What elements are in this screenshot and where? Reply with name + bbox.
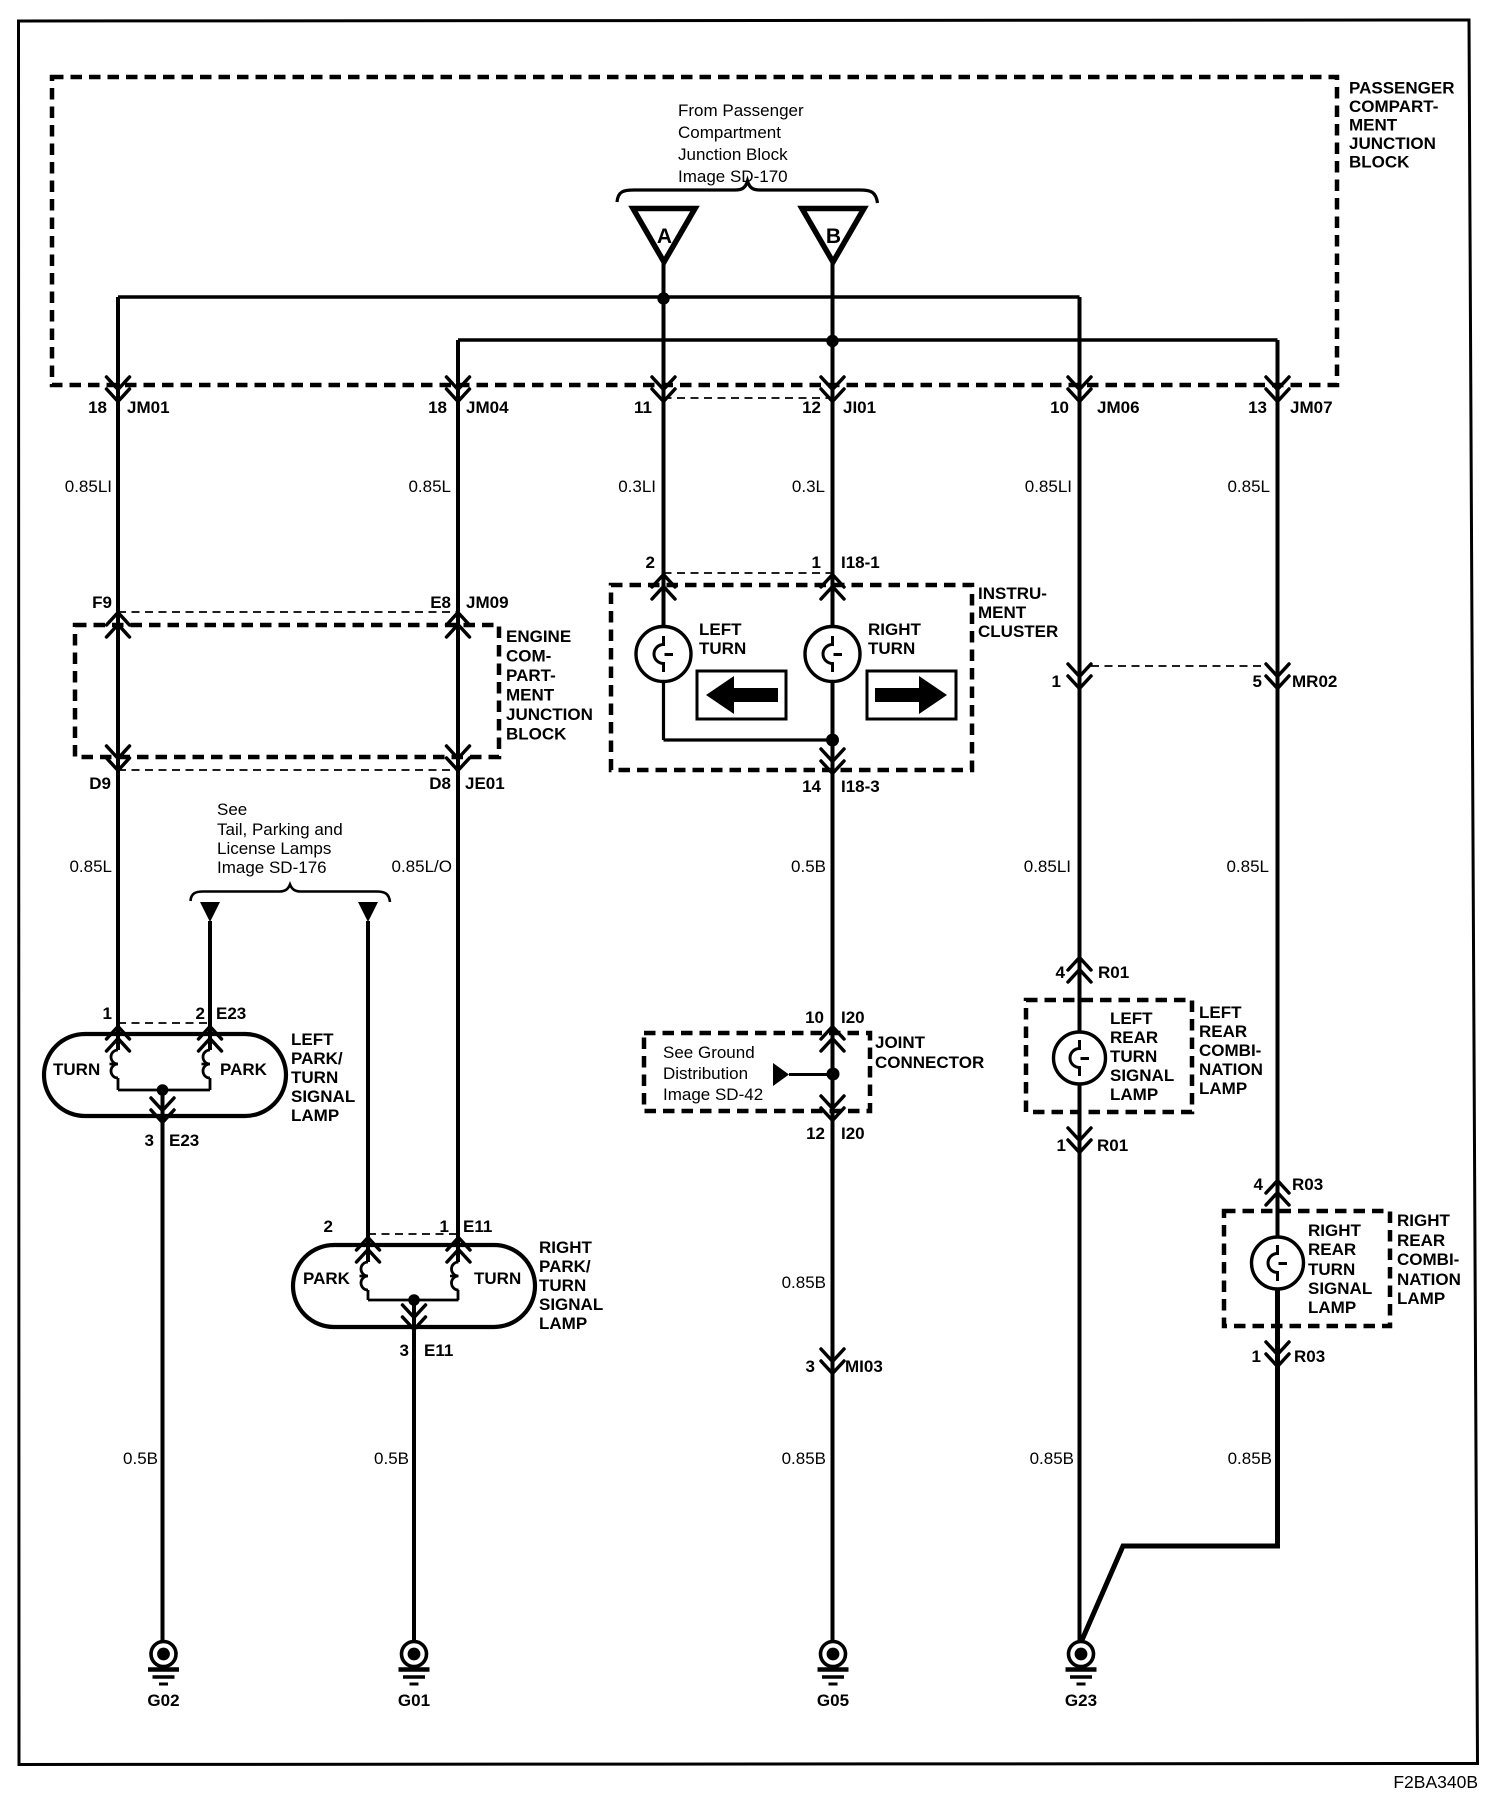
svg-text:MENT: MENT xyxy=(506,686,555,705)
svg-text:Image SD-170: Image SD-170 xyxy=(678,167,788,186)
svg-text:0.85B: 0.85B xyxy=(782,1449,826,1468)
svg-text:13: 13 xyxy=(1248,398,1267,417)
svg-text:11: 11 xyxy=(634,398,652,417)
svg-text:Tail, Parking and: Tail, Parking and xyxy=(217,820,343,839)
svg-text:E11: E11 xyxy=(463,1217,492,1236)
svg-text:12: 12 xyxy=(802,398,821,417)
see-ground pointer arrow xyxy=(773,1063,827,1086)
labels D9 / D8 JE01 xyxy=(89,774,504,793)
svg-text:JM07: JM07 xyxy=(1290,398,1333,417)
svg-text:ENGINE: ENGINE xyxy=(506,627,571,646)
wire: stub from tail lamps note to left lamp PARK pin xyxy=(208,921,212,1050)
svg-text:1: 1 xyxy=(812,553,821,572)
labels F9 / E8 JM09 xyxy=(92,593,508,612)
connector R03 pin 4 xyxy=(1266,1181,1289,1194)
filament: left lamp PARK xyxy=(202,1050,211,1078)
instrument cluster (dashed box) xyxy=(611,585,972,770)
svg-text:INSTRU-: INSTRU- xyxy=(978,584,1047,603)
svg-text:REAR: REAR xyxy=(1397,1231,1445,1250)
svg-text:0.3LI: 0.3LI xyxy=(618,477,656,496)
svg-text:RIGHT: RIGHT xyxy=(1308,1221,1362,1240)
connector I18-1 pin 2 xyxy=(652,575,675,588)
svg-text:R01: R01 xyxy=(1098,963,1129,982)
labels cluster connector I18-3 xyxy=(802,777,880,796)
connector I18-3 pin 14 xyxy=(821,749,844,762)
svg-text:0.85LI: 0.85LI xyxy=(1025,477,1072,496)
filament: right lamp TURN xyxy=(450,1262,459,1290)
arrowhead on right stub wire xyxy=(358,902,378,922)
labels left lamp connector E23 pin 3 xyxy=(145,1131,200,1150)
svg-text:License Lamps: License Lamps xyxy=(217,839,331,858)
svg-text:2: 2 xyxy=(646,553,655,572)
dashed link connector E23 pins 1-2 xyxy=(118,1022,210,1024)
svg-text:3: 3 xyxy=(145,1131,154,1150)
wire gauge labels row 3 xyxy=(123,1449,1272,1468)
connector JM01 pin 18 xyxy=(107,377,130,390)
labels left lamp TURN / PARK xyxy=(53,1060,268,1079)
svg-text:0.5B: 0.5B xyxy=(123,1449,158,1468)
wire: right lamp internal junction to pin 3 and G01 xyxy=(368,1299,459,1302)
note: see ground distribution xyxy=(663,1043,763,1104)
svg-text:18: 18 xyxy=(88,398,107,417)
svg-text:Junction Block: Junction Block xyxy=(678,145,788,164)
svg-text:SIGNAL: SIGNAL xyxy=(539,1295,603,1314)
svg-text:MENT: MENT xyxy=(978,603,1027,622)
svg-text:PART-: PART- xyxy=(506,666,556,685)
left turn arrow icon xyxy=(697,671,786,719)
svg-text:G05: G05 xyxy=(817,1691,849,1710)
svg-text:TURN: TURN xyxy=(699,639,746,658)
label left turn xyxy=(699,620,746,658)
svg-text:MI03: MI03 xyxy=(845,1357,883,1376)
passenger compartment junction block (dashed box) xyxy=(52,77,1337,385)
label instrument cluster xyxy=(978,584,1058,641)
label passenger compartment junction block xyxy=(1349,79,1455,172)
svg-text:0.85L: 0.85L xyxy=(1226,857,1269,876)
svg-text:TURN: TURN xyxy=(539,1276,586,1295)
svg-text:TURN: TURN xyxy=(53,1060,100,1079)
junction node in joint connector xyxy=(827,1068,840,1081)
svg-text:0.85L: 0.85L xyxy=(408,477,451,496)
filament: left lamp TURN xyxy=(110,1050,119,1078)
connector JM04 pin 18 xyxy=(447,377,470,390)
svg-text:0.85L: 0.85L xyxy=(69,857,112,876)
wire: JM01 column down to left park/turn lamp xyxy=(116,297,120,1050)
note: see tail, parking and license lamps xyxy=(217,800,343,877)
label right rear combination lamp xyxy=(1397,1211,1461,1308)
svg-text:3: 3 xyxy=(806,1357,815,1376)
right park/turn signal lamp body xyxy=(293,1245,535,1327)
wire: JM06 column down through R01, left rear lamp to G23 xyxy=(1078,297,1082,1031)
wire: horizontal bus from triangle A, JM01 to JM06 xyxy=(118,295,1080,299)
svg-text:4: 4 xyxy=(1056,963,1066,982)
svg-text:3: 3 xyxy=(400,1341,409,1360)
svg-text:LEFT: LEFT xyxy=(1110,1009,1153,1028)
dashed link connector D9-D8 xyxy=(118,769,458,771)
connector JM06 pin 10 xyxy=(1068,377,1091,390)
labels connector R01 pin 1 xyxy=(1057,1136,1129,1155)
svg-text:JM01: JM01 xyxy=(127,398,170,417)
labels MR02 xyxy=(1052,672,1338,691)
wire: stub from tail lamps note to right lamp PARK pin xyxy=(366,921,370,1262)
svg-text:REAR: REAR xyxy=(1308,1240,1356,1259)
left park/turn signal lamp body xyxy=(44,1034,286,1116)
svg-text:See: See xyxy=(217,800,247,819)
connector E23 pin 2 xyxy=(199,1027,222,1040)
svg-text:0.85B: 0.85B xyxy=(782,1273,826,1292)
svg-text:0.85B: 0.85B xyxy=(1030,1449,1074,1468)
svg-text:CLUSTER: CLUSTER xyxy=(978,622,1058,641)
svg-text:BLOCK: BLOCK xyxy=(506,725,567,744)
right rear turn signal lamp (dashed box) xyxy=(1224,1211,1390,1326)
svg-text:PARK: PARK xyxy=(220,1060,268,1079)
note: from passenger compartment junction block xyxy=(678,101,804,186)
connector R01 pin 1 xyxy=(1068,1128,1091,1141)
svg-text:2: 2 xyxy=(196,1004,205,1023)
svg-text:0.85L/O: 0.85L/O xyxy=(392,857,453,876)
labels connector R03 pin 1 xyxy=(1252,1347,1326,1366)
svg-text:R03: R03 xyxy=(1294,1347,1325,1366)
svg-text:E11: E11 xyxy=(424,1341,453,1360)
svg-text:SIGNAL: SIGNAL xyxy=(291,1087,355,1106)
svg-text:LEFT: LEFT xyxy=(291,1030,334,1049)
svg-text:G01: G01 xyxy=(398,1691,430,1710)
right turn arrow icon xyxy=(867,671,956,719)
svg-text:F2BA340B: F2BA340B xyxy=(1393,1772,1478,1792)
wire gauge labels row 2 xyxy=(69,857,1269,876)
connector R01 pin 4 xyxy=(1068,958,1091,971)
connector E11 pin 1 xyxy=(447,1238,470,1251)
svg-text:Compartment: Compartment xyxy=(678,123,781,142)
labels connector R01 pin 4 xyxy=(1056,963,1130,982)
svg-text:1: 1 xyxy=(440,1217,449,1236)
svg-text:0.85L: 0.85L xyxy=(1227,477,1270,496)
wire gauge labels row 1 xyxy=(65,477,1270,496)
svg-text:CONNECTOR: CONNECTOR xyxy=(875,1053,984,1072)
svg-text:SIGNAL: SIGNAL xyxy=(1110,1066,1174,1085)
label right park/turn signal lamp xyxy=(539,1238,603,1333)
labels connector R03 pin 4 xyxy=(1254,1175,1324,1194)
ground G02 xyxy=(147,1642,179,1711)
svg-text:TURN: TURN xyxy=(291,1068,338,1087)
svg-text:JUNCTION: JUNCTION xyxy=(1349,134,1436,153)
svg-text:0.5B: 0.5B xyxy=(791,857,826,876)
labels cluster connector I18-1 xyxy=(646,553,880,572)
svg-text:NATION: NATION xyxy=(1397,1270,1461,1289)
svg-text:LAMP: LAMP xyxy=(1199,1079,1247,1098)
junction node in left lamp xyxy=(157,1084,169,1096)
brace over triangles A and B xyxy=(617,181,878,203)
svg-text:NATION: NATION xyxy=(1199,1060,1263,1079)
svg-text:REAR: REAR xyxy=(1199,1022,1247,1041)
connector MR02 pin 5 xyxy=(1266,664,1289,677)
labels right lamp connector E11 pin 3 xyxy=(400,1341,454,1360)
svg-text:Image SD-176: Image SD-176 xyxy=(217,858,327,877)
svg-text:JI01: JI01 xyxy=(843,398,876,417)
svg-text:I20: I20 xyxy=(841,1124,865,1143)
svg-text:JM06: JM06 xyxy=(1097,398,1140,417)
label left rear combination lamp xyxy=(1199,1003,1263,1098)
connector E11 pin 3 xyxy=(403,1305,426,1318)
junction node on bus B xyxy=(826,335,838,347)
svg-text:REAR: REAR xyxy=(1110,1028,1158,1047)
dashed link connector E11 pins 2-1 xyxy=(368,1233,459,1235)
svg-text:E23: E23 xyxy=(169,1131,199,1150)
wire: cluster internal jumper to right turn node xyxy=(664,738,833,741)
wire: horizontal bus from triangle B, JM04 to JM07 xyxy=(458,338,1278,342)
connector JM09 pin E8 xyxy=(447,613,470,626)
svg-text:E8: E8 xyxy=(430,593,451,612)
svg-text:G02: G02 xyxy=(147,1691,179,1710)
filament: right lamp PARK xyxy=(360,1262,369,1290)
svg-text:RIGHT: RIGHT xyxy=(868,620,922,639)
svg-text:TURN: TURN xyxy=(474,1269,521,1288)
svg-text:RIGHT: RIGHT xyxy=(1397,1211,1451,1230)
svg-text:MR02: MR02 xyxy=(1292,672,1337,691)
svg-text:LEFT: LEFT xyxy=(1199,1003,1242,1022)
connector I20 pin 12 xyxy=(821,1096,844,1109)
wire: triangle A down to connector 11 and cluster left turn xyxy=(662,262,666,626)
svg-text:PARK/: PARK/ xyxy=(539,1257,591,1276)
labels left lamp connector E23 top xyxy=(103,1004,247,1023)
svg-text:JM04: JM04 xyxy=(466,398,509,417)
labels right lamp PARK / TURN xyxy=(303,1269,521,1288)
triangle source A xyxy=(633,209,695,263)
svg-text:1: 1 xyxy=(1252,1347,1261,1366)
svg-text:PARK/: PARK/ xyxy=(291,1049,343,1068)
svg-text:Image SD-42: Image SD-42 xyxy=(663,1085,763,1104)
svg-text:A: A xyxy=(657,225,672,248)
arrowhead on left stub wire xyxy=(200,902,220,922)
svg-text:D9: D9 xyxy=(89,774,111,793)
svg-text:PARK: PARK xyxy=(303,1269,351,1288)
svg-text:RIGHT: RIGHT xyxy=(539,1238,593,1257)
svg-text:I18-3: I18-3 xyxy=(841,777,880,796)
label right turn xyxy=(868,620,922,658)
svg-text:R03: R03 xyxy=(1292,1175,1323,1194)
svg-text:R01: R01 xyxy=(1097,1136,1128,1155)
svg-text:JE01: JE01 xyxy=(465,774,505,793)
connector E23 pin 1 xyxy=(107,1027,130,1040)
connector I20 pin 10 xyxy=(821,1027,844,1040)
connector E23 pin 3 xyxy=(151,1098,174,1111)
svg-text:LAMP: LAMP xyxy=(1308,1298,1356,1317)
connector pin 11 xyxy=(652,377,675,390)
svg-text:G23: G23 xyxy=(1065,1691,1097,1710)
label engine compartment junction block xyxy=(506,627,593,744)
svg-text:LAMP: LAMP xyxy=(1110,1085,1158,1104)
svg-text:COMBI-: COMBI- xyxy=(1397,1250,1459,1269)
brace over tail-lamp stub wires xyxy=(191,885,391,903)
svg-text:1: 1 xyxy=(103,1004,112,1023)
label joint connector xyxy=(875,1033,984,1072)
label left park/turn signal lamp xyxy=(291,1030,355,1125)
svg-text:SIGNAL: SIGNAL xyxy=(1308,1279,1372,1298)
bulb: right rear turn signal xyxy=(1252,1237,1304,1289)
connector JM07 pin 13 xyxy=(1266,377,1289,390)
svg-text:10: 10 xyxy=(805,1008,824,1027)
svg-text:PASSENGER: PASSENGER xyxy=(1349,79,1455,98)
svg-text:LAMP: LAMP xyxy=(539,1314,587,1333)
connector I18-1 pin 1 xyxy=(821,575,844,588)
wire: JM04 column down to right park/turn lamp xyxy=(456,340,460,1262)
svg-text:0.85LI: 0.85LI xyxy=(1024,857,1071,876)
connector R03 pin 1 xyxy=(1266,1342,1289,1355)
labels connector row JM01..JM07 xyxy=(88,398,1332,417)
dashed link connector I18-1 pins 2-1 xyxy=(664,572,833,574)
svg-text:From Passenger: From Passenger xyxy=(678,101,804,120)
svg-text:12: 12 xyxy=(806,1124,825,1143)
joint connector (dashed box) xyxy=(644,1033,870,1111)
svg-text:0.85LI: 0.85LI xyxy=(65,477,112,496)
svg-text:0.5B: 0.5B xyxy=(374,1449,409,1468)
svg-text:10: 10 xyxy=(1050,398,1069,417)
connector JE01 pin D8 xyxy=(447,746,470,759)
wire: right rear lamp to G23 (bend) xyxy=(1082,1290,1278,1640)
svg-text:F9: F9 xyxy=(92,593,112,612)
svg-text:1: 1 xyxy=(1057,1136,1066,1155)
svg-text:5: 5 xyxy=(1253,672,1262,691)
svg-text:JM09: JM09 xyxy=(466,593,509,612)
svg-text:I18-1: I18-1 xyxy=(841,553,880,572)
label left rear turn signal lamp xyxy=(1110,1009,1174,1104)
svg-text:JUNCTION: JUNCTION xyxy=(506,705,593,724)
svg-text:Distribution: Distribution xyxy=(663,1064,748,1083)
triangle source B xyxy=(802,209,864,263)
labels right lamp connector E11 top xyxy=(324,1217,493,1236)
svg-text:B: B xyxy=(826,225,841,248)
wire: triangle B down through JI01, cluster, I20, MI03 to G05 xyxy=(831,262,835,626)
svg-text:MENT: MENT xyxy=(1349,116,1398,135)
svg-text:TURN: TURN xyxy=(1308,1260,1355,1279)
svg-text:LAMP: LAMP xyxy=(291,1106,339,1125)
ground G05 xyxy=(817,1642,849,1711)
bulb: left rear turn signal xyxy=(1054,1032,1106,1084)
svg-text:1: 1 xyxy=(1052,672,1061,691)
svg-text:COMBI-: COMBI- xyxy=(1199,1041,1261,1060)
junction node in instrument cluster xyxy=(826,734,839,747)
bulb: cluster right turn indicator xyxy=(805,627,860,682)
svg-text:See Ground: See Ground xyxy=(663,1043,755,1062)
svg-text:D8: D8 xyxy=(429,774,451,793)
svg-text:18: 18 xyxy=(428,398,447,417)
ground G23 xyxy=(1065,1642,1097,1711)
connector F9 xyxy=(107,613,130,626)
labels joint connector I20 pin 10 xyxy=(805,1008,865,1027)
svg-text:TURN: TURN xyxy=(1110,1047,1157,1066)
svg-text:0.85B: 0.85B xyxy=(1228,1449,1272,1468)
svg-text:BLOCK: BLOCK xyxy=(1349,153,1410,172)
svg-text:4: 4 xyxy=(1254,1175,1264,1194)
svg-text:2: 2 xyxy=(324,1217,333,1236)
engine compartment junction block (dashed box) xyxy=(75,625,499,757)
labels connector MI03 pin 3 xyxy=(806,1357,883,1376)
svg-text:LAMP: LAMP xyxy=(1397,1289,1445,1308)
svg-text:LEFT: LEFT xyxy=(699,620,742,639)
dashed link connector F9-E8 xyxy=(118,611,458,613)
wire: left lamp internal junction to pin 3 and G02 xyxy=(118,1089,210,1092)
connector MR02 pin 1 side xyxy=(1068,664,1091,677)
dashed link connector JI01 pins 11-12 xyxy=(664,397,833,399)
left rear turn signal lamp (dashed box) xyxy=(1026,1000,1192,1112)
labels joint connector I20 pin 12 xyxy=(806,1124,865,1143)
svg-text:COMPART-: COMPART- xyxy=(1349,97,1438,116)
svg-text:TURN: TURN xyxy=(868,639,915,658)
svg-text:COM-: COM- xyxy=(506,647,551,666)
junction node on bus A xyxy=(657,292,669,304)
connector E11 pin 2 xyxy=(357,1238,380,1251)
connector JI01 pin 12 xyxy=(821,377,844,390)
svg-text:JOINT: JOINT xyxy=(875,1033,926,1052)
junction node in right lamp xyxy=(408,1294,420,1306)
wire: JM07 column down through MR02, R03 xyxy=(1276,340,1280,1236)
svg-text:E23: E23 xyxy=(216,1004,246,1023)
label right rear turn signal lamp xyxy=(1308,1221,1372,1317)
bulb: cluster left turn indicator xyxy=(636,627,691,682)
svg-text:14: 14 xyxy=(802,777,821,796)
connector D9 xyxy=(107,746,130,759)
svg-text:I20: I20 xyxy=(841,1008,865,1027)
svg-text:0.3L: 0.3L xyxy=(792,477,825,496)
connector MI03 pin 3 xyxy=(821,1349,844,1362)
ground G01 xyxy=(398,1642,430,1711)
dashed link connector MR02 pins 1-5 xyxy=(1091,665,1266,667)
